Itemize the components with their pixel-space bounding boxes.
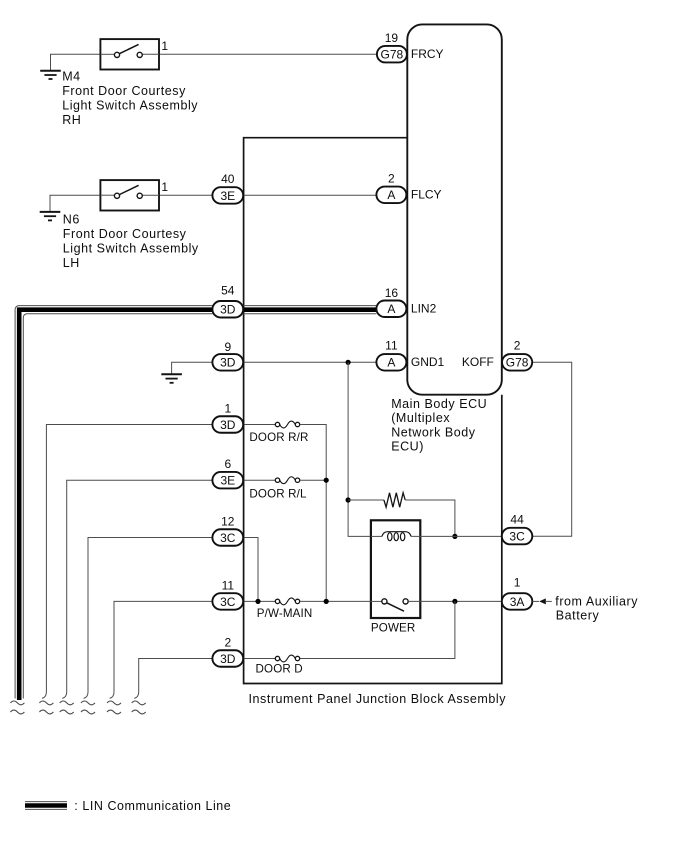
svg-text:: LIN Communication Line: : LIN Communication Line (74, 799, 231, 813)
wire: 3C pin12 left lead (88, 538, 213, 693)
connector 3E pin 6 (212, 457, 243, 488)
connector 3D pin 2 (212, 635, 243, 666)
relay coil (371, 532, 502, 541)
svg-text:DOOR R/L: DOOR R/L (249, 487, 307, 500)
svg-text:9: 9 (224, 340, 231, 354)
wire: 3D pin2 row (DOOR D) left lead (139, 659, 213, 693)
resistor (relay coil parallel resistor) (384, 493, 405, 507)
wire: switch RH to connector G78 pin19 (159, 53, 376, 55)
svg-text:RH: RH (62, 113, 81, 127)
ground symbol for N6 (40, 212, 61, 221)
svg-text:2: 2 (224, 635, 231, 649)
wire: 3E pin6 row (DOOR R/L) left lead (67, 480, 213, 692)
wire: relay output down to DOOR D row (300, 601, 455, 658)
svg-text:3E: 3E (220, 474, 235, 488)
node: vertical from DOOR fuses joins P/W-MAIN wire (324, 599, 329, 604)
fuse P/W-MAIN (257, 598, 313, 620)
relay POWER contact (371, 599, 502, 611)
wire: 3E pin40 to connector A pin2 (243, 194, 376, 196)
svg-text:Main Body ECU: Main Body ECU (391, 397, 487, 411)
label N6 component name (63, 213, 199, 270)
LIN thick line between 3D pin54 and A pin16 (243, 306, 376, 314)
svg-text:16: 16 (385, 286, 399, 300)
connector 3D pin 54 (212, 284, 243, 318)
connector A pin 2 FLCY (376, 171, 441, 203)
svg-text:2: 2 (514, 338, 521, 352)
connector 3C pin 12 (212, 515, 243, 546)
ground symbol for M4 (40, 71, 61, 79)
wire: 3C pin11 to fuse P/W-MAIN (243, 600, 275, 602)
svg-text:1: 1 (161, 180, 168, 194)
ECU block: Main Body ECU rounded rectangle (407, 24, 502, 394)
svg-text:3E: 3E (220, 189, 235, 203)
wire: switch RH left lead to ground (51, 54, 101, 71)
svg-text:A: A (387, 302, 395, 316)
svg-text:ECU): ECU) (391, 440, 424, 454)
connector A pin 11 GND1 (376, 338, 444, 370)
LIN communication line (thick) from left edge to 3D pin54 (15, 306, 213, 700)
wire: junction to resistor (348, 499, 384, 501)
wire: 3D pin2 to fuse DOOR D (243, 658, 275, 660)
svg-text:6: 6 (224, 457, 231, 471)
svg-text:3C: 3C (220, 531, 236, 545)
svg-text:3C: 3C (220, 595, 236, 609)
svg-text:DOOR D: DOOR D (256, 663, 303, 676)
svg-text:54: 54 (221, 284, 235, 298)
arrow from Auxiliary Battery (533, 594, 639, 622)
connector G78 pin 2 KOFF (502, 338, 532, 370)
svg-text:KOFF: KOFF (462, 355, 494, 369)
svg-text:Battery: Battery (556, 608, 600, 622)
Instrument Panel Junction Block outline (244, 138, 502, 684)
node: coil/resistor right junction (452, 534, 457, 539)
wire: junction down to coil row (348, 362, 371, 536)
node: junction on GND1 wire (346, 360, 351, 365)
connector 3E pin 40 (212, 172, 243, 204)
wire: fuse P/W-MAIN to relay box (300, 600, 371, 602)
connector 3C pin 11 (212, 578, 243, 609)
connector 3A pin 1 (502, 575, 533, 609)
node: 3C pin12 branch junction (255, 599, 260, 604)
svg-text:3D: 3D (220, 418, 236, 432)
svg-text:19: 19 (385, 31, 399, 45)
wire: 3C pin11 row (P/W-MAIN) left lead (114, 601, 213, 692)
fuse DOOR R/R (249, 421, 308, 444)
wire: 3C pin12 branch down to P/W-MAIN row (243, 538, 258, 602)
svg-text:44: 44 (510, 513, 524, 527)
fuse DOOR R/L (249, 477, 307, 501)
svg-text:Light Switch Assembly: Light Switch Assembly (62, 99, 198, 113)
svg-text:11: 11 (222, 578, 235, 592)
svg-text:POWER: POWER (371, 621, 416, 634)
svg-text:1: 1 (514, 575, 521, 589)
svg-text:1: 1 (161, 39, 168, 53)
node: resistor branch junction (346, 497, 351, 502)
wire: 3E pin6 to fuse DOOR R/L (243, 479, 275, 481)
wire break squiggle: LIN line (10, 701, 24, 714)
switch M4 (Front Door Courtesy Light Switch RH) (100, 39, 159, 69)
svg-text:3D: 3D (220, 356, 236, 370)
node: DOOR R/L joins vertical (324, 478, 329, 483)
ground symbol for pin 9 circuit (161, 374, 182, 383)
svg-text:Network Body: Network Body (391, 425, 476, 439)
wire: 3D pin9 to A pin11 GND1 (243, 361, 376, 363)
legend: LIN communication line sample (25, 799, 231, 813)
connector G78 pin 19 FRCY (377, 31, 444, 63)
wire break squiggle: 3C pin12 lead (81, 692, 95, 714)
label Main Body ECU name (391, 397, 487, 454)
node: relay output junction (452, 599, 457, 604)
relay POWER box (371, 520, 420, 634)
wire: ground to 3D pin9 (172, 362, 213, 374)
svg-text:DOOR R/R: DOOR R/R (249, 431, 308, 444)
wire break squiggle: DOOR R/L lead (60, 692, 74, 714)
wire: G78 pin2 to right and down to 3C pin44 (532, 362, 572, 536)
svg-text:P/W-MAIN: P/W-MAIN (257, 607, 313, 620)
switch N6 (Front Door Courtesy Light Switch LH) (100, 180, 159, 210)
wire: switch LH left lead to ground (50, 195, 100, 212)
svg-text:GND1: GND1 (411, 355, 445, 369)
connector 3C pin 44 (502, 513, 533, 545)
svg-text:3A: 3A (510, 595, 525, 609)
fuse DOOR D (256, 655, 303, 676)
svg-text:Front Door Courtesy: Front Door Courtesy (63, 227, 187, 241)
svg-text:Instrument Panel Junction Bloc: Instrument Panel Junction Block Assembly (249, 692, 507, 706)
wire: switch LH to connector 3E pin40 (159, 194, 213, 196)
connector 3D pin 9 (212, 340, 243, 371)
wire: resistor to right branch down (405, 500, 455, 536)
svg-text:from Auxiliary: from Auxiliary (555, 594, 638, 608)
svg-text:FRCY: FRCY (411, 47, 444, 61)
svg-text:2: 2 (388, 171, 395, 185)
svg-text:Light Switch Assembly: Light Switch Assembly (63, 241, 199, 255)
wire: 3D pin1 row (DOOR R/R) left lead (46, 425, 212, 693)
svg-text:3C: 3C (509, 530, 525, 544)
svg-text:3D: 3D (220, 652, 236, 666)
svg-text:(Multiplex: (Multiplex (391, 411, 450, 425)
svg-text:G78: G78 (506, 356, 529, 370)
connector 3D pin 1 (212, 402, 243, 433)
wire break squiggle: P/W-MAIN lead (107, 692, 121, 714)
svg-text:A: A (387, 356, 395, 370)
svg-text:3D: 3D (220, 303, 236, 317)
svg-text:12: 12 (221, 515, 235, 529)
svg-text:Front Door Courtesy: Front Door Courtesy (62, 84, 186, 98)
wire: fuse DOOR R/R to right vertical (300, 425, 327, 602)
svg-text:40: 40 (221, 172, 235, 186)
svg-text:M4: M4 (62, 70, 80, 84)
label M4 component name (62, 70, 198, 127)
svg-text:LH: LH (63, 256, 80, 270)
svg-text:A: A (387, 188, 395, 202)
wire break squiggle: DOOR R/R lead (39, 692, 53, 714)
svg-text:LIN2: LIN2 (411, 301, 437, 315)
connector A pin 16 LIN2 (376, 286, 436, 317)
svg-text:11: 11 (385, 338, 398, 352)
wire break squiggle: DOOR D lead (132, 692, 146, 714)
svg-text:1: 1 (224, 402, 231, 416)
svg-text:N6: N6 (63, 213, 80, 227)
svg-text:FLCY: FLCY (411, 188, 442, 202)
svg-text:G78: G78 (381, 48, 404, 62)
wire: 3D pin1 to fuse DOOR R/R (243, 424, 275, 426)
wire: fuse DOOR R/L to junction (300, 479, 327, 481)
